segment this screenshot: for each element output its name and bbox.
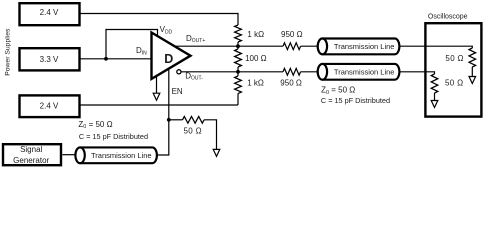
svg-text:1 kΩ: 1 kΩ bbox=[247, 30, 264, 39]
svg-text:C = 15 pF Distributed: C = 15 pF Distributed bbox=[79, 132, 148, 141]
svg-text:100 Ω: 100 Ω bbox=[245, 54, 267, 63]
svg-text:Transmission Line: Transmission Line bbox=[334, 68, 395, 77]
svg-text:Power Supplies: Power Supplies bbox=[4, 28, 11, 76]
svg-text:2.4 V: 2.4 V bbox=[40, 102, 59, 111]
svg-text:Signal: Signal bbox=[20, 145, 42, 154]
svg-text:D: D bbox=[164, 52, 173, 66]
svg-text:Transmission Line: Transmission Line bbox=[91, 151, 152, 160]
svg-text:Generator: Generator bbox=[13, 156, 49, 165]
svg-text:950 Ω: 950 Ω bbox=[281, 30, 303, 39]
svg-text:50 Ω: 50 Ω bbox=[445, 79, 464, 88]
svg-text:Transmission Line: Transmission Line bbox=[334, 42, 395, 51]
svg-text:2.4 V: 2.4 V bbox=[40, 8, 59, 17]
svg-text:3.3 V: 3.3 V bbox=[40, 55, 59, 64]
svg-text:EN: EN bbox=[172, 87, 183, 96]
svg-text:50 Ω: 50 Ω bbox=[184, 126, 203, 135]
svg-text:50 Ω: 50 Ω bbox=[445, 54, 464, 63]
svg-text:950 Ω: 950 Ω bbox=[280, 78, 302, 87]
svg-text:1 kΩ: 1 kΩ bbox=[247, 78, 264, 87]
svg-text:C = 15 pF Distributed: C = 15 pF Distributed bbox=[321, 96, 390, 105]
svg-text:Oscilloscope: Oscilloscope bbox=[428, 14, 468, 21]
